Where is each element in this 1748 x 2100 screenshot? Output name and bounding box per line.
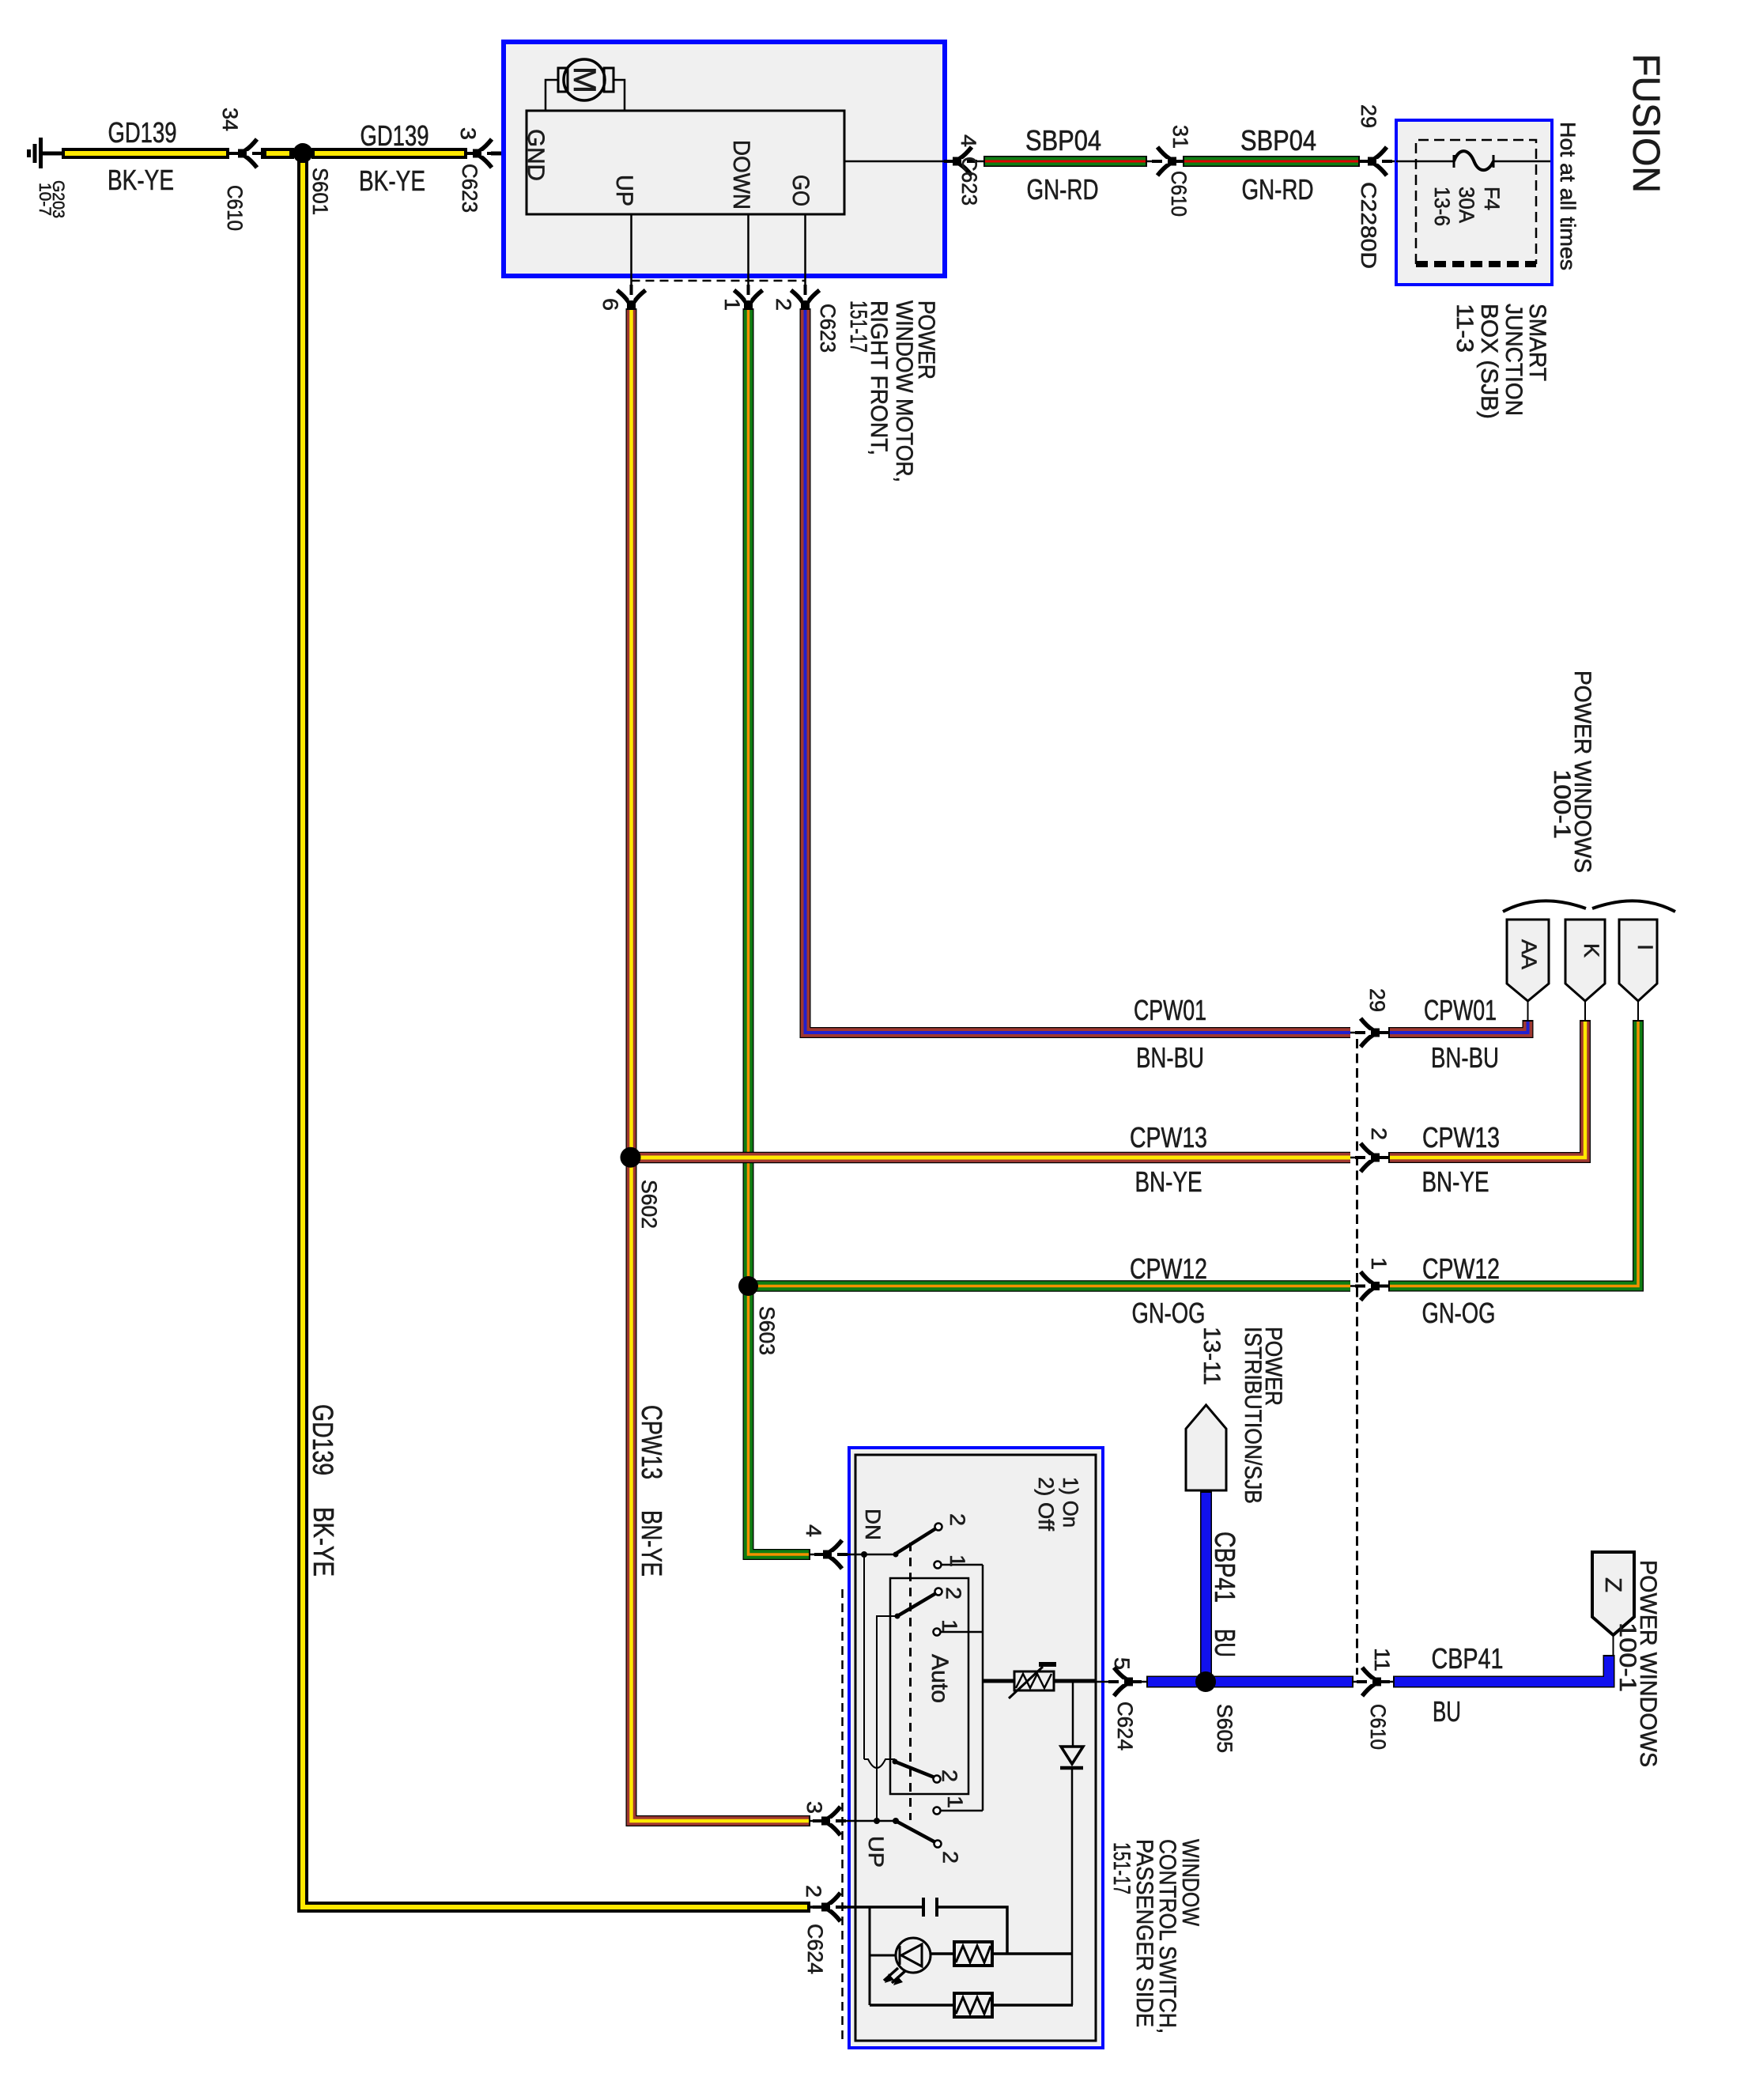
svg-text:CPW13: CPW13 [636,1405,668,1479]
wire CPW12 GN-OG vertical+pin4 [749,308,811,1554]
svg-text:GN-RD: GN-RD [1027,173,1099,206]
svg-text:30A: 30A [1455,187,1478,223]
svg-text:GO: GO [787,175,814,206]
svg-text:BK-YE: BK-YE [108,164,174,196]
motor controller inner box [527,111,844,214]
svg-text:GN-OG: GN-OG [1422,1297,1496,1329]
splice S602 [621,1147,641,1168]
svg-text:CPW13: CPW13 [1130,1121,1207,1154]
wire AUTO common [877,1616,897,1820]
svg-text:4: 4 [802,1524,825,1537]
wire AUTO-up contact1 to bus [940,1631,983,1634]
svg-text:C624: C624 [803,1924,827,1974]
wire resistor2 left [870,2004,954,2007]
LED feed vertical [869,1907,871,2005]
pin 4 arrow area [810,1554,897,1556]
connector arrow pin4 [814,1540,848,1569]
auto switch box [890,1578,968,1794]
diode [1060,1747,1083,1768]
svg-text:BU: BU [1209,1629,1241,1657]
motor tab left [558,68,568,92]
switch DN contact 1 [934,1562,942,1569]
connector Z [1592,1552,1634,1635]
switch UP contact 2 [934,1841,942,1848]
svg-text:34: 34 [218,108,242,131]
connector C623 arrow (GND) [464,139,497,168]
dashed connector line C610 (middle) [1356,1039,1358,1675]
switch AUTO-up contact 1 [934,1629,941,1636]
connector POWER DISTRIBUTION/SJB [1186,1405,1226,1490]
svg-text:M: M [567,66,602,93]
wire GD139 BK-YE segment B [311,148,467,159]
svg-text:151-17: 151-17 [1108,1842,1135,1894]
wire I stub [1637,1001,1639,1022]
svg-text:S601: S601 [308,168,332,215]
svg-text:1: 1 [946,1554,969,1567]
smart junction box SJB [1396,120,1552,285]
LED arrowheads [885,1973,903,1985]
wire CBP41 vertical [1200,1491,1212,1676]
svg-text:CPW01: CPW01 [1134,994,1206,1026]
wire CBP41 horizontal right [1393,1655,1609,1682]
svg-text:2: 2 [1367,1127,1391,1140]
fuse F4 [1454,151,1493,170]
wire UP contact1 to bus [940,1810,983,1812]
wire CPW01 right stub [1388,1020,1528,1033]
svg-text:CPW12: CPW12 [1130,1252,1207,1285]
wire CPW13 BN-YE vertical+pin3 [632,308,811,1821]
connector I [1619,920,1657,1001]
wire CPW01 BN-BU vertical+horizontal [806,308,1351,1033]
wire Z stub [1613,1634,1614,1656]
dashed mechanical link [909,1543,912,1820]
svg-text:POWER: POWER [913,300,939,380]
svg-text:F4: F4 [1480,187,1504,210]
resistor R1 [954,1942,992,1966]
diode feed [1072,1681,1074,1747]
svg-text:1) On: 1) On [1059,1477,1082,1528]
switch AUTO-up contact 2 [935,1588,942,1596]
svg-text:AA: AA [1517,939,1541,969]
wire into SJB [1360,161,1455,163]
pin line UP [630,214,632,305]
wire link at C610 [1147,161,1183,163]
dashed connector line C623 [632,280,806,282]
svg-text:C610: C610 [1167,171,1191,217]
svg-text:100-1: 100-1 [1549,769,1575,839]
svg-text:UP: UP [611,175,637,206]
wire thermistor to pin5 [1054,1679,1096,1683]
wire ground stub [41,152,62,156]
svg-text:CBP41: CBP41 [1209,1532,1241,1603]
wire resistor2 right [992,2004,1073,2007]
wire link CPW13 [1350,1157,1391,1159]
connector arrow 1 [1355,1272,1388,1301]
svg-text:2: 2 [942,1587,965,1600]
connector arrow pin6 [617,285,646,318]
LED circle [870,1938,931,1983]
switch UP blade [896,1821,935,1842]
wire CPW12 right stub [1388,1020,1638,1286]
connector arrow pin2 [791,285,820,318]
wire LED to resistor1 [931,1952,954,1955]
connector arrow pin1 [734,285,763,318]
splice S603 [738,1276,758,1296]
svg-text:CBP41: CBP41 [1432,1642,1504,1675]
svg-text:GN-OG: GN-OG [1132,1297,1206,1329]
svg-text:2: 2 [772,298,795,311]
window control switch box inner [855,1455,1096,2041]
svg-text:S603: S603 [755,1306,779,1355]
svg-text:CPW13: CPW13 [1422,1121,1500,1154]
resistor R2 [954,1993,992,2017]
thermistor feed [983,1679,1014,1683]
svg-text:BN-YE: BN-YE [1422,1165,1489,1198]
wire AA stub [1527,1001,1529,1022]
connector arrow pin2 [813,1893,846,1921]
wire K stub [1584,1001,1586,1022]
switch AUTO-up blade [897,1593,936,1616]
svg-text:3: 3 [802,1801,826,1814]
svg-text:13-6: 13-6 [1430,187,1454,226]
svg-text:29: 29 [1365,988,1389,1012]
connector C2280D arrow [1359,147,1392,176]
capacitor [923,1898,937,1917]
wire capacitor right [937,1907,1007,1954]
wire resistor1 right [992,1952,1073,1955]
svg-text:GD139: GD139 [361,119,429,152]
svg-text:BN-YE: BN-YE [1135,1165,1202,1198]
dashed connector line C624 [841,1589,844,2040]
switch DN blade [896,1528,936,1554]
svg-text:Hot at all times: Hot at all times [1556,122,1580,270]
window control switch box outer [849,1448,1103,2048]
svg-text:DN: DN [861,1509,885,1540]
svg-text:C623: C623 [816,304,840,353]
svg-text:3: 3 [456,127,480,140]
wire SBP04 GN-RD segment 2 [1183,156,1360,167]
svg-text:6: 6 [598,298,622,311]
svg-text:S605: S605 [1213,1704,1236,1753]
svg-text:13-11: 13-11 [1199,1327,1225,1385]
svg-text:29: 29 [1357,104,1380,128]
svg-text:BU: BU [1433,1695,1461,1728]
motor box outer (POWER WINDOW MOTOR) [504,42,945,276]
svg-text:31: 31 [1168,125,1192,149]
wire pin5 out [1096,1681,1148,1683]
svg-text:C2280D: C2280D [1357,182,1380,269]
thermistor [1009,1664,1056,1698]
bus vertical [982,1565,984,1811]
svg-text:SMART: SMART [1524,304,1550,381]
svg-text:FUSION: FUSION [1625,54,1667,193]
svg-text:CPW12: CPW12 [1422,1252,1500,1285]
pin 2 arrow area [810,1905,923,1909]
svg-text:C623: C623 [458,164,481,213]
connector arrow pin3 [813,1807,846,1835]
svg-text:I: I [1633,944,1657,950]
svg-text:11: 11 [1370,1648,1394,1671]
svg-text:2: 2 [802,1885,825,1898]
switch AUTO-dn blade [895,1762,934,1777]
svg-text:GD139: GD139 [108,116,177,149]
svg-text:2) Off: 2) Off [1034,1477,1058,1531]
pin line GO [804,214,806,305]
svg-text:4: 4 [957,134,980,147]
svg-text:SBP04: SBP04 [1025,124,1101,157]
wire inside SJB [1396,161,1455,163]
svg-text:ISTRIBUTION/SJB: ISTRIBUTION/SJB [1240,1327,1266,1504]
wire link CPW12 [1350,1285,1391,1287]
splice S601 [293,143,313,163]
wire diode down [1071,1768,1074,2005]
connector arrow 2 [1355,1143,1388,1172]
connector C610 arrow [229,139,262,168]
svg-text:GD139: GD139 [307,1404,339,1475]
svg-text:2: 2 [938,1851,962,1864]
svg-text:1: 1 [1367,1257,1391,1270]
connector arrow 11 [1357,1668,1390,1696]
motor M circle [564,59,605,100]
switch AUTO-dn pivot dot [893,1759,898,1765]
wire link C610 (CBP41) [1353,1681,1396,1683]
svg-text:Z: Z [1600,1577,1625,1592]
wire CPW13 right stub [1388,1020,1585,1158]
wire GD139 BK-YE segment A [62,148,229,159]
svg-text:C610: C610 [223,185,247,231]
svg-text:UP: UP [864,1836,888,1868]
wire GD139 vertical from S601 to C624 pin2 [303,158,810,1907]
switch DN junction dot [861,1551,867,1558]
wire motor power out [844,161,983,163]
svg-text:GN-RD: GN-RD [1242,173,1314,206]
connector AA [1507,920,1549,1001]
connector C610 arrow (SBP04) [1152,147,1185,176]
svg-text:10-7: 10-7 [36,183,54,216]
wire fuse to bus [1493,161,1550,163]
svg-text:BK-YE: BK-YE [359,164,425,197]
svg-text:1: 1 [943,1796,967,1808]
SJB dashed fuse box [1416,140,1536,264]
wire DN common down [863,1554,865,1759]
switch AUTO-up pivot dot [895,1614,900,1619]
svg-text:C624: C624 [1113,1702,1137,1751]
switch DN contact 2 [935,1524,942,1531]
ground G203 [29,138,41,168]
wire link CPW01 [1350,1032,1391,1034]
wire CPW12 horizontal from S603 [748,1280,1350,1292]
connector C623 arrow (power) [944,147,977,176]
svg-text:1: 1 [720,298,744,311]
splice S605 [1195,1671,1216,1692]
switch AUTO-dn contact 2 [934,1776,941,1783]
connector K [1565,920,1605,1001]
connector arrow pin5 [1108,1668,1142,1696]
svg-text:CPW01: CPW01 [1424,994,1497,1026]
label G203 10-7 [36,180,67,218]
svg-text:K: K [1580,943,1603,957]
svg-text:RIGHT FRONT,: RIGHT FRONT, [866,300,892,455]
wire short yellow between C610 and S601 [261,148,294,159]
svg-text:C610: C610 [1366,1704,1390,1750]
svg-text:BOX (SJB): BOX (SJB) [1476,304,1502,419]
svg-text:GND: GND [523,129,549,181]
svg-text:100-1: 100-1 [1614,1622,1640,1692]
connector arrow 29 [1355,1018,1388,1047]
pin 3 arrow area [810,1820,896,1822]
wire CPW13 horizontal from S602 [630,1152,1350,1164]
switch UP junction dots [874,1818,899,1824]
brace over connectors [1503,901,1675,912]
pin line DOWN [747,214,749,305]
svg-text:BN-BU: BN-BU [1431,1041,1499,1074]
wire hop to AUTO-dn pivot [864,1759,895,1768]
svg-text:S602: S602 [637,1180,661,1229]
svg-text:2: 2 [938,1770,961,1782]
svg-text:11-3: 11-3 [1452,304,1478,353]
wire SBP04 GN-RD segment 1 [983,156,1147,167]
switch UP contact 1 [934,1807,941,1815]
wire CBP41 horizontal left [1146,1676,1353,1688]
svg-text:C623: C623 [957,157,981,206]
svg-text:BN-BU: BN-BU [1136,1041,1204,1074]
svg-text:Auto: Auto [927,1654,953,1703]
wire into GND [491,152,527,156]
switch DN pivot dot [893,1552,899,1558]
wire DN contact1 to bus [941,1564,983,1566]
svg-text:1: 1 [938,1619,961,1632]
motor tab right [604,68,613,92]
svg-text:BN-YE: BN-YE [636,1510,668,1577]
svg-text:DOWN: DOWN [728,140,754,210]
motor wires [546,80,625,111]
svg-text:JUNCTION: JUNCTION [1501,304,1527,416]
svg-text:BK-YE: BK-YE [308,1507,340,1577]
svg-text:SBP04: SBP04 [1240,124,1316,157]
svg-text:2: 2 [946,1513,969,1526]
